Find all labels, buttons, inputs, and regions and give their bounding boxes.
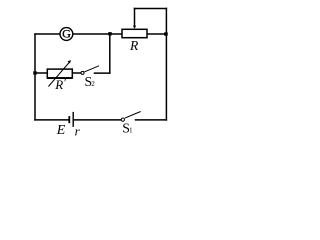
- wire G to R: [73, 33, 122, 35]
- node: junction dot top (branch meets top wire): [108, 32, 111, 35]
- node: junction dot left (branch meets left wire): [33, 71, 36, 74]
- branch wire R' to S2 pivot: [72, 72, 81, 74]
- bottom wire left segment: [35, 119, 69, 121]
- branch vertical wire up to top junction: [109, 34, 111, 73]
- node: junction dot right (loop meets right wire): [164, 32, 168, 35]
- switch S2 blade: [84, 66, 99, 72]
- resistor R body: [122, 29, 147, 37]
- branch wire S2 contact to corner: [95, 72, 110, 74]
- rheostat R' body: [47, 69, 72, 78]
- switch S1 blade: [125, 112, 141, 119]
- battery E long plate (positive): [72, 112, 74, 127]
- branch wire left vertical to R': [35, 72, 47, 74]
- galvanometer U1 circle: [60, 28, 73, 41]
- switch S1 pivot: [121, 118, 124, 121]
- left vertical wire: [34, 34, 36, 120]
- wire top-left to G: [35, 33, 60, 35]
- rheostat loop: top wire: [135, 8, 167, 10]
- rheostat loop: wiper stem: [134, 9, 136, 27]
- resistor R wiper arrowhead: [133, 26, 136, 29]
- rheostat loop: right vertical: [165, 9, 167, 35]
- bottom wire right segment: [136, 119, 167, 121]
- rheostat R' diagonal arrow: [48, 62, 69, 87]
- svg-text:E: E: [56, 123, 66, 138]
- wire R to right vertical: [147, 33, 166, 35]
- switch S2 pivot: [81, 71, 84, 74]
- svg-text:R: R: [129, 38, 139, 53]
- right vertical wire: [165, 34, 167, 120]
- bottom wire middle segment: [74, 119, 121, 121]
- svg-text:G: G: [62, 26, 71, 40]
- battery E short plate (negative): [68, 116, 70, 123]
